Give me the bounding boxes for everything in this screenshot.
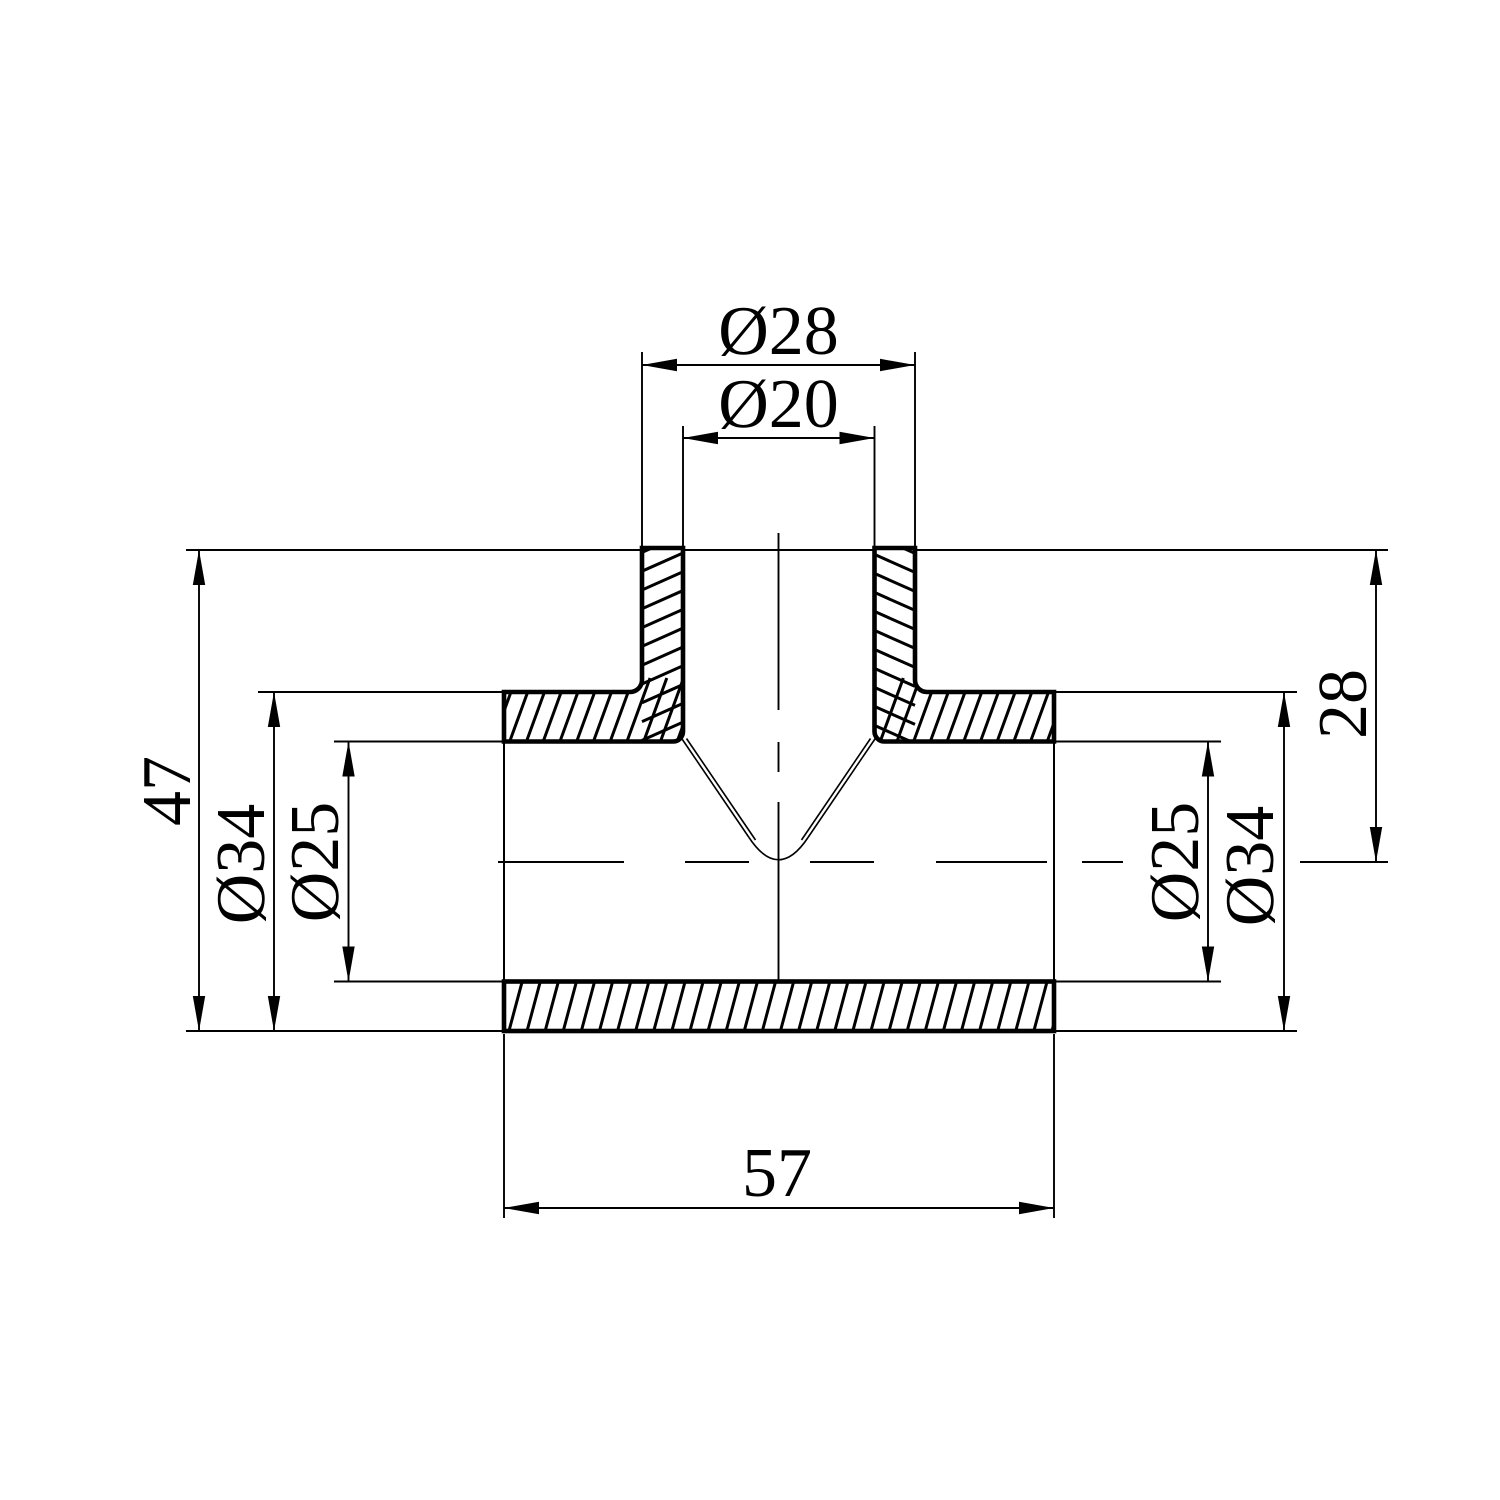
svg-text:Ø28: Ø28	[718, 293, 839, 370]
extension lines 57	[504, 1034, 1054, 1218]
cone transition right lines	[802, 736, 878, 840]
dimension O20	[683, 366, 875, 444]
dimension 47	[129, 550, 206, 1031]
dimension 57	[504, 1135, 1054, 1214]
dimension O28	[642, 293, 915, 371]
svg-text:28: 28	[1305, 669, 1382, 739]
centerline horizontal (main pipe axis)	[498, 861, 1388, 863]
outline right flange and right branch wall	[875, 548, 1055, 742]
cone transition left lines	[680, 736, 756, 840]
dimension O25 right	[1137, 742, 1214, 982]
extension lines O20	[683, 426, 875, 546]
bore opening edge right face	[1053, 742, 1055, 982]
extension line top (47 / 28 reference), y=550	[186, 549, 1388, 551]
hatch right flange and right branch wall	[875, 516, 1104, 762]
extension lines left O25	[334, 742, 504, 982]
svg-text:57: 57	[742, 1135, 812, 1212]
cone bottom arc	[749, 838, 808, 860]
dimension O34 right	[1212, 692, 1290, 1031]
extension lines right O25	[1054, 742, 1221, 982]
dimension O25 left	[277, 742, 355, 982]
svg-text:Ø25: Ø25	[1137, 802, 1214, 923]
svg-text:47: 47	[129, 756, 206, 826]
hatch bottom wall	[490, 980, 1083, 1033]
hatch left flange and left branch wall	[456, 515, 717, 759]
svg-text:Ø34: Ø34	[203, 804, 280, 925]
extension lines right O34	[1054, 692, 1297, 1031]
outline bottom wall	[504, 982, 1054, 1032]
bore opening edge left face	[503, 742, 505, 982]
svg-text:Ø34: Ø34	[1212, 806, 1289, 927]
extension lines O28	[642, 352, 915, 546]
dimension 28 right	[1305, 550, 1382, 862]
outline left flange and left branch wall	[504, 548, 683, 742]
svg-text:Ø20: Ø20	[718, 366, 839, 443]
extension line bottom-left (47 / O34 reference)	[186, 1030, 504, 1032]
dimension O34 left	[203, 692, 280, 1031]
centerline vertical (branch axis)	[778, 533, 780, 981]
extension line left O34 top	[258, 691, 504, 693]
svg-text:Ø25: Ø25	[277, 802, 354, 923]
